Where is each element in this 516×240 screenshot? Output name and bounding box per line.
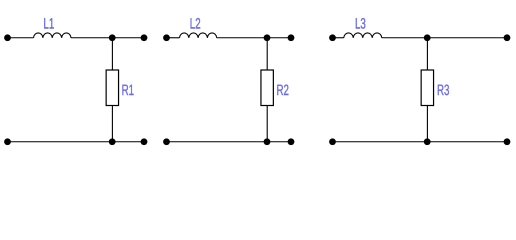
node: top-left terminal — [329, 34, 336, 41]
node: bottom junction — [264, 138, 271, 145]
wire: R1 top lead — [111, 38, 113, 70]
node: bottom junction — [424, 138, 431, 145]
wire: top-left node to L1 left terminal — [8, 37, 34, 39]
wire: L1 right terminal to junction node — [71, 37, 112, 39]
wire: R1 bottom lead — [111, 106, 113, 142]
resistor R1 — [106, 70, 118, 106]
node: bottom-right corner — [504, 138, 511, 145]
svg-text:L3: L3 — [355, 16, 366, 33]
svg-text:R3: R3 — [437, 82, 449, 99]
wire: bottom rail section 2 — [167, 141, 292, 143]
node: top-left terminal — [163, 34, 170, 41]
wire: R2 top lead — [266, 38, 268, 70]
inductor L2 — [180, 33, 217, 38]
svg-text:L1: L1 — [43, 16, 54, 33]
node: top-left terminal — [4, 34, 11, 41]
resistor R3 — [421, 70, 433, 106]
wire: top-left node to L3 left terminal — [333, 37, 344, 39]
svg-text:R2: R2 — [277, 82, 289, 99]
node: bottom-left terminal — [329, 138, 336, 145]
node: bottom-left terminal — [163, 138, 170, 145]
node: bottom-left terminal — [4, 138, 11, 145]
wire: L2 right terminal to junction node — [217, 37, 267, 39]
node: top junction — [264, 34, 271, 41]
svg-text:R1: R1 — [122, 82, 134, 99]
wire: junction to top-right corner — [112, 37, 144, 39]
wire: bottom rail section 1 — [8, 141, 145, 143]
node: top junction — [424, 34, 431, 41]
wire: R3 bottom lead — [426, 106, 428, 142]
wire: top-left node to L2 left terminal — [167, 37, 180, 39]
inductor L1 — [34, 33, 72, 38]
node: top-right corner — [504, 34, 511, 41]
wire: junction to top-right corner — [427, 37, 507, 39]
node: bottom junction — [109, 138, 116, 145]
wire: junction to top-right corner — [267, 37, 291, 39]
resistor R2 — [261, 70, 273, 106]
node: bottom-right corner — [288, 138, 295, 145]
node: bottom-right corner — [141, 138, 148, 145]
node: top-right corner — [141, 34, 148, 41]
wire: bottom rail section 3 — [333, 141, 508, 143]
svg-text:L2: L2 — [190, 16, 201, 33]
node: top junction — [109, 34, 116, 41]
wire: L3 right terminal to junction node — [382, 37, 427, 39]
wire: R2 bottom lead — [266, 106, 268, 142]
wire: R3 top lead — [426, 38, 428, 70]
inductor L3 — [344, 33, 382, 38]
node: top-right corner — [288, 34, 295, 41]
